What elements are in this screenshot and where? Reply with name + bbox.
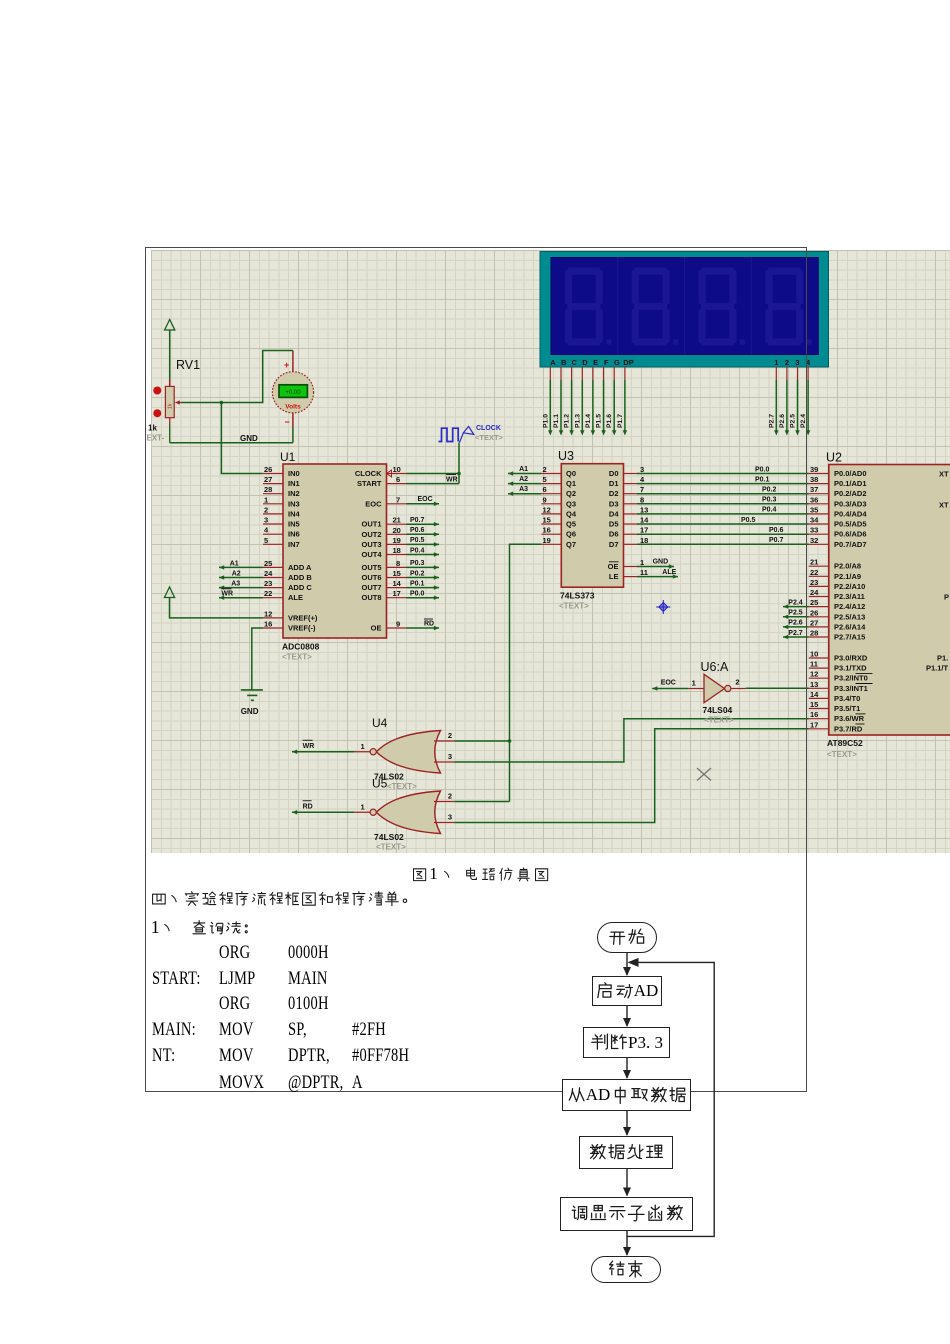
U2 left pin numbers <box>810 465 819 729</box>
wire voltmeter to GND rail <box>292 427 294 443</box>
U4 output bubble <box>370 749 376 755</box>
svg-text:36: 36 <box>810 495 818 504</box>
svg-text:<TEXT>: <TEXT> <box>827 750 857 759</box>
svg-text:P3.7/RD: P3.7/RD <box>834 724 863 733</box>
net label WR <box>303 740 315 750</box>
net label WR (start) <box>446 475 458 484</box>
wire RV1 wiper to voltmeter and ADC (node) <box>181 351 293 403</box>
svg-text:P1.: P1. <box>937 654 948 663</box>
U1 EOC wire and net label <box>407 496 440 506</box>
svg-text:21: 21 <box>810 558 818 567</box>
ground symbol (VREF-) <box>241 690 263 700</box>
U1 left pin names <box>288 469 318 633</box>
flowchart start terminal 开始 <box>597 922 657 953</box>
flowchart arrow start->启动AD <box>622 953 632 976</box>
flowchart process 判断P3.3 <box>583 1027 670 1058</box>
U3 right pin stubs <box>624 474 638 577</box>
X marker <box>697 768 711 781</box>
svg-text:P0.6/AD6: P0.6/AD6 <box>834 530 867 539</box>
U1 left pin stubs <box>263 474 283 629</box>
U1 left pin numbers <box>264 465 273 629</box>
flowchart arrow 调显示子函数->结束 <box>622 1231 632 1256</box>
svg-text:28: 28 <box>810 629 818 638</box>
net label RD <box>303 801 313 811</box>
svg-text:33: 33 <box>810 526 818 535</box>
U5 input stubs pins 2 3 <box>434 792 454 823</box>
svg-text:P2.3/A11: P2.3/A11 <box>834 592 865 601</box>
svg-text:34: 34 <box>810 516 819 525</box>
svg-text:17: 17 <box>810 720 818 729</box>
wires A1 A2 A3 to U3 <box>508 471 541 496</box>
svg-text:P3.5/T1: P3.5/T1 <box>834 704 860 713</box>
svg-text:XT: XT <box>939 470 949 479</box>
flowchart arrow 启动AD->判断P3.3 <box>622 1006 632 1027</box>
svg-text:P2.5/A13: P2.5/A13 <box>834 612 865 621</box>
wire RV1 top pin stub <box>169 380 171 387</box>
U3 right pin numbers <box>640 465 649 577</box>
U4 input stubs pins 2 3 <box>434 731 454 762</box>
U1 OUT wires with P0 net labels <box>407 517 440 600</box>
wire U3 Q7 to NOR gates <box>510 544 542 801</box>
wire clock to U1 CLOCK/START <box>407 443 461 484</box>
svg-text:22: 22 <box>810 568 818 577</box>
junction dot wiper node <box>220 401 224 405</box>
wire GND rail <box>170 442 293 444</box>
svg-text:37: 37 <box>810 485 818 494</box>
power terminal (VREF+) <box>164 587 174 598</box>
svg-text:P3.6/WR: P3.6/WR <box>834 714 865 723</box>
U6 input stub pin 1 <box>688 679 704 689</box>
svg-text:AT89C52: AT89C52 <box>827 738 863 748</box>
U1 right pin stubs <box>387 474 407 629</box>
flowchart process 调显示子函数 <box>560 1197 693 1231</box>
svg-text:XT: XT <box>939 501 949 510</box>
subheading 1、查询法： <box>151 917 259 938</box>
svg-text:10: 10 <box>810 650 818 659</box>
svg-text:P0.7/AD7: P0.7/AD7 <box>834 540 867 549</box>
svg-text:P0.2/AD2: P0.2/AD2 <box>834 489 867 498</box>
inverter U6:A body <box>704 674 725 703</box>
RV1 wiper arrow <box>175 400 181 404</box>
U6 output stub pin 2 <box>731 678 746 689</box>
U3 LE wire net ALE <box>637 569 678 579</box>
svg-text:P3.4/T0: P3.4/T0 <box>834 694 860 703</box>
resistor RV1 body <box>165 386 174 417</box>
clock generator CLOCK <box>439 426 474 442</box>
data bus wires U3 D0-D7 to U2 P0 <box>637 474 809 545</box>
7-segment display module <box>540 252 829 368</box>
net labels P2.7-P2.4 (display) <box>768 414 807 428</box>
svg-text:39: 39 <box>810 465 818 474</box>
flowchart process 从AD中取数据 <box>562 1079 691 1111</box>
voltmeter body <box>272 372 313 413</box>
svg-text:P: P <box>944 593 949 602</box>
wire power to VREF+ <box>170 598 264 618</box>
U6 output bubble <box>725 685 731 691</box>
voltmeter + pin stub <box>292 351 294 373</box>
wire down to U1 IN0 <box>221 403 262 474</box>
svg-text:25: 25 <box>810 598 818 607</box>
svg-text:P0.5/AD5: P0.5/AD5 <box>834 520 867 529</box>
flowchart process 启动AD <box>592 976 662 1006</box>
wire U5 output net RD <box>292 810 354 814</box>
heading 四、实验程序流程框图和程序清单。 <box>151 891 417 907</box>
net label WR (U1 ALE) <box>221 589 233 598</box>
svg-text:24: 24 <box>810 588 819 597</box>
drawing frame / outer flowchart loop <box>145 247 807 1092</box>
wire VREF- to ground <box>252 628 263 690</box>
junction dot Q7/U4 pin2 <box>508 739 512 743</box>
U2 left pin names <box>834 469 873 733</box>
origin marker (blue) <box>656 600 670 614</box>
wire U4 pin3 to U2 P3.6 <box>454 719 809 762</box>
wire U5 pin3 to U2 P3.7 <box>454 729 809 823</box>
flowchart arrow 数据处理->调显示子函数 <box>622 1169 632 1197</box>
wire U4 pin2 from Q7 net <box>454 740 509 742</box>
flowchart end terminal 结束 <box>591 1256 661 1283</box>
U4 output stub pin 1 <box>354 751 370 753</box>
svg-text:P0.4/AD4: P0.4/AD4 <box>834 509 867 518</box>
net labels P1.0-P1.7 (display) <box>542 414 624 428</box>
wire EOC to U6 input <box>652 686 688 690</box>
net labels P0.0-P0.7 (bus) <box>741 466 784 544</box>
U1 address input wires A1 A2 A3 WR <box>219 565 263 600</box>
svg-text:P2.0/A8: P2.0/A8 <box>834 562 861 571</box>
svg-text:P0.3/AD3: P0.3/AD3 <box>834 499 867 508</box>
svg-text:P2.6/A14: P2.6/A14 <box>834 622 866 631</box>
svg-text:P0.0/AD0: P0.0/AD0 <box>834 469 867 478</box>
svg-text:P3.0/RXD: P3.0/RXD <box>834 654 868 663</box>
svg-text:26: 26 <box>810 608 818 617</box>
wire RV1 bottom to GND rail <box>169 418 171 443</box>
U3 left pin numbers <box>543 465 551 545</box>
U5 output stub pin 1 <box>354 811 370 813</box>
svg-text:15: 15 <box>810 700 818 709</box>
flowchart arrow 判断->从AD中取数据 <box>622 1058 632 1079</box>
svg-text:11: 11 <box>810 660 818 669</box>
svg-text:23: 23 <box>810 578 818 587</box>
svg-text:P3.2/INT0: P3.2/INT0 <box>834 674 868 683</box>
U1 OE wire net label RD <box>407 619 440 630</box>
svg-text:35: 35 <box>810 505 818 514</box>
RV1 terminal dot (bottom) <box>153 409 161 417</box>
schematic grid background <box>151 250 950 853</box>
U3 OE wire net GND <box>637 559 674 569</box>
wire U4 output net WR <box>292 750 354 754</box>
svg-text:U2: U2 <box>826 451 842 465</box>
svg-text:13: 13 <box>810 680 818 689</box>
U3 left pin stubs <box>541 474 561 545</box>
svg-text:27: 27 <box>810 618 818 627</box>
svg-text:P3.3/INT1: P3.3/INT1 <box>834 684 868 693</box>
power terminal (top-left, +V to RV1) <box>165 320 175 380</box>
U1 clock input marker <box>387 470 392 477</box>
svg-text:14: 14 <box>810 690 819 699</box>
voltmeter - pin stub <box>292 413 294 427</box>
wire U6 output to U2 P3.3 <box>746 687 809 689</box>
assembly code listing <box>219 942 250 964</box>
ADC U1 body <box>283 464 387 638</box>
flowchart loop line (inner feedback) <box>626 956 721 1238</box>
RV1 terminal dot (top) <box>153 387 161 395</box>
svg-text:P3.1/TXD: P3.1/TXD <box>834 664 867 673</box>
caption 图1、电路仿真图 <box>412 864 549 884</box>
latch U3 body <box>561 464 623 588</box>
U2 left pin stubs <box>809 474 829 729</box>
svg-text:16: 16 <box>810 710 818 719</box>
flowchart arrow 从AD中取数据->数据处理 <box>622 1111 632 1136</box>
svg-text:P0.1/AD1: P0.1/AD1 <box>834 479 867 488</box>
svg-text:P2.7/A15: P2.7/A15 <box>834 633 865 642</box>
NOR gate U5 body <box>376 791 440 834</box>
flowchart process 数据处理 <box>579 1136 673 1169</box>
NOR gate U4 body <box>376 731 440 774</box>
U1 right pin numbers <box>393 465 402 629</box>
svg-text:32: 32 <box>810 536 818 545</box>
svg-text:P2.4/A12: P2.4/A12 <box>834 602 865 611</box>
U3 right pin names D0-D7 OE LE <box>608 469 620 581</box>
U5 output bubble <box>370 809 376 815</box>
U3 left pin names Q0-Q7 <box>566 469 577 549</box>
MCU U2 body <box>829 465 950 736</box>
svg-text:12: 12 <box>810 670 818 679</box>
display pin stubs <box>550 367 808 380</box>
wires P2.4-P2.7 net stubs <box>783 599 809 639</box>
svg-text:P1.1/T: P1.1/T <box>926 664 949 673</box>
display wires to P1/P2 nets <box>548 380 810 436</box>
svg-text:P2.1/A9: P2.1/A9 <box>834 572 861 581</box>
svg-text:38: 38 <box>810 475 818 484</box>
U1 right pin names <box>355 469 382 633</box>
U2 right side clipped labels <box>926 470 949 673</box>
svg-text:P2.2/A10: P2.2/A10 <box>834 582 865 591</box>
display segment labels ABCDEFG DP <box>550 358 811 367</box>
wire U5 pin2 from Q7 net <box>454 801 509 803</box>
